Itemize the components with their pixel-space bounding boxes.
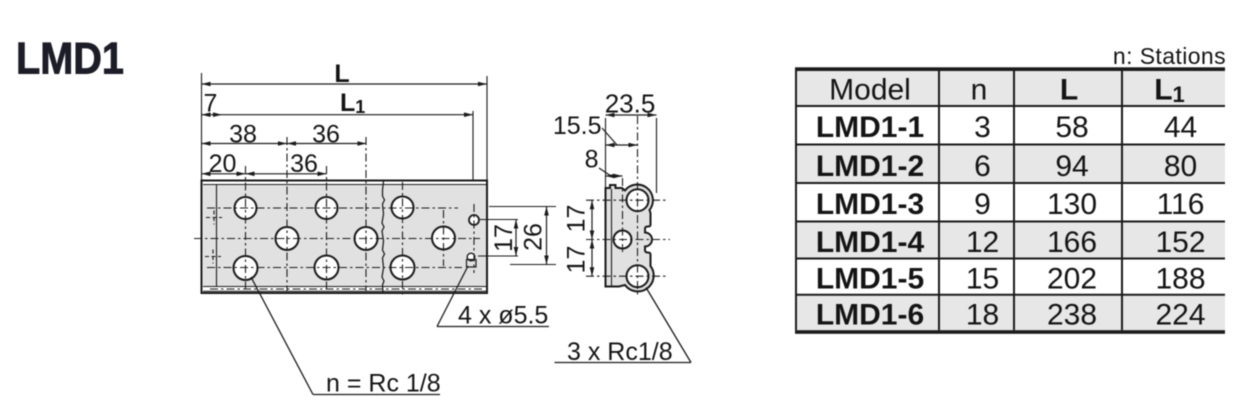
side view centerline bottom circle horizontal	[586, 275, 668, 277]
svg-text:n: n	[971, 74, 988, 107]
leader 15.5	[602, 128, 617, 145]
mounting hole top row 2	[316, 197, 338, 219]
svg-text:36: 36	[290, 150, 318, 178]
svg-text:44: 44	[1164, 111, 1197, 144]
svg-text:12: 12	[966, 226, 999, 259]
svg-text:8: 8	[585, 146, 599, 174]
centerline hole column 5	[402, 182, 404, 296]
svg-text:18: 18	[966, 299, 999, 332]
svg-text:202: 202	[1047, 263, 1097, 296]
svg-text:9: 9	[974, 188, 991, 221]
svg-text:188: 188	[1155, 263, 1205, 296]
table row LMD1-4 background	[795, 222, 1225, 259]
svg-text:80: 80	[1164, 150, 1197, 183]
label 4 x dia5.5 underline	[437, 326, 549, 328]
side view port circle middle (Rc1/8)	[614, 231, 632, 249]
side view centerline middle circle horizontal	[586, 239, 670, 241]
leader line 3 x Rc1/8	[646, 288, 691, 363]
svg-text:166: 166	[1047, 226, 1097, 259]
leader line 4 x dia5.5	[437, 266, 468, 327]
dimension 17 vertical line	[515, 220, 517, 257]
table column divider L-L1	[1121, 71, 1123, 330]
svg-text:LMD1-2: LMD1-2	[816, 150, 924, 183]
port hole middle row 2	[355, 227, 378, 250]
side view flange inner line	[611, 189, 613, 286]
side view centerline vertical middle circle	[622, 178, 624, 253]
label 3 x Rc1/8 underline	[555, 362, 692, 364]
centerline bottom band	[210, 288, 482, 290]
extension line 23.5 right	[656, 118, 658, 193]
extension line 26 bottom	[510, 264, 556, 266]
table column divider Model-n	[938, 71, 940, 330]
mounting hole top row 1	[235, 197, 257, 219]
svg-text:58: 58	[1055, 111, 1088, 144]
centerline hole column 1	[245, 166, 247, 291]
plate inner bottom edge line	[203, 286, 486, 288]
svg-text:224: 224	[1155, 299, 1205, 332]
centerline hole column 2 (middle row 1)	[286, 137, 288, 291]
svg-text:3 x Rc1/8: 3 x Rc1/8	[567, 338, 673, 366]
centerline hole column 3	[326, 166, 328, 291]
centerline small port column	[473, 204, 475, 273]
table row LMD1-2 background	[795, 145, 1225, 184]
svg-text:n: Stations: n: Stations	[1113, 43, 1226, 69]
left edge port cross upper	[206, 217, 222, 219]
leader line n = Rc 1/8	[251, 277, 313, 395]
svg-text:3: 3	[974, 111, 991, 144]
table column divider n-L	[1013, 71, 1015, 330]
extension line L1 right	[472, 111, 474, 180]
left edge port cross lower	[205, 256, 221, 258]
svg-text:130: 130	[1047, 188, 1097, 221]
svg-text:238: 238	[1047, 299, 1097, 332]
table header row background	[795, 71, 1225, 106]
extension line 23.5 left	[605, 118, 607, 188]
svg-text:36: 36	[312, 121, 340, 149]
centerline middle hole row	[194, 238, 480, 240]
svg-text:L: L	[334, 60, 349, 88]
mounting hole top row 3	[392, 197, 414, 219]
extension line plate left top	[201, 73, 203, 180]
small pilot hole lower right with square pad	[467, 253, 475, 261]
break line	[382, 181, 385, 292]
plate left inner edge line	[216, 185, 218, 287]
side view centerline top circle horizontal	[586, 199, 668, 201]
small pilot hole upper right	[469, 215, 479, 225]
svg-text:23.5: 23.5	[605, 89, 656, 119]
dimension 17-17 vertical line side view	[591, 200, 593, 276]
svg-text:15: 15	[966, 263, 999, 296]
svg-text:17: 17	[563, 205, 591, 233]
port hole middle row 3	[432, 227, 455, 250]
side view centerline vertical top-bottom circles	[637, 116, 639, 297]
dimension 20-36 line	[202, 173, 327, 175]
dimension 26 vertical line	[546, 207, 548, 265]
centerline hole column 4 (middle row 2)	[365, 137, 367, 291]
front view plate body	[202, 181, 488, 294]
svg-text:15.5: 15.5	[553, 112, 602, 140]
extension line 17 top	[480, 219, 518, 221]
dimension 7 and L1 line	[202, 114, 474, 116]
extension line 26 top	[489, 206, 556, 208]
svg-text:LMD1-6: LMD1-6	[816, 299, 924, 332]
svg-text:6: 6	[974, 150, 991, 183]
svg-text:LMD1-4: LMD1-4	[816, 226, 925, 259]
extension line plate right top	[486, 76, 488, 180]
svg-text:26: 26	[520, 223, 548, 251]
label n = Rc 1/8 underline	[313, 394, 440, 396]
dimension 38-36 line	[202, 143, 367, 145]
table row LMD1-6 background	[795, 295, 1225, 330]
svg-text:LMD1-5: LMD1-5	[816, 263, 924, 296]
svg-text:17: 17	[563, 246, 591, 274]
side view body	[606, 185, 654, 292]
plate second bottom line	[203, 290, 486, 292]
side view port circle top (Rc1/8)	[627, 189, 649, 211]
centerline bottom hole row	[207, 267, 462, 269]
svg-text:4 x ø5.5: 4 x ø5.5	[458, 302, 548, 330]
table left border	[795, 71, 797, 330]
port hole middle row 1	[276, 227, 299, 250]
table top border thick	[795, 67, 1225, 71]
table horizontal separators	[795, 105, 1225, 107]
svg-text:n = Rc 1/8: n = Rc 1/8	[326, 370, 441, 398]
svg-text:LMD1-1: LMD1-1	[816, 111, 924, 144]
svg-text:116: 116	[1157, 188, 1205, 221]
svg-text:LMD1: LMD1	[16, 35, 124, 84]
table bottom border thick	[795, 330, 1225, 334]
port hole bottom row 2	[315, 256, 339, 280]
port hole bottom row 3	[391, 256, 415, 280]
svg-text:94: 94	[1055, 150, 1088, 183]
svg-text:152: 152	[1155, 226, 1205, 259]
centerline hole column 6 (middle row 3)	[443, 210, 445, 266]
dimension L line	[202, 83, 488, 85]
dimension 23.5 line	[606, 114, 657, 116]
svg-text:17: 17	[490, 224, 518, 252]
svg-text:38: 38	[229, 121, 257, 149]
centerline top hole row	[207, 207, 458, 209]
side view port circle bottom (Rc1/8)	[627, 265, 649, 287]
port hole bottom row 1 (n = Rc 1/8)	[234, 256, 258, 280]
plate inner top edge line	[203, 184, 486, 186]
svg-text:LMD1-3: LMD1-3	[816, 188, 924, 221]
svg-text:7: 7	[204, 90, 218, 118]
svg-text:L: L	[1060, 74, 1078, 107]
leader 8	[599, 168, 611, 176]
svg-text:20: 20	[209, 150, 237, 178]
extension line 17 bottom	[478, 255, 518, 257]
dimension 15.5 line	[606, 144, 638, 146]
dimension 8 line	[606, 175, 623, 177]
svg-text:Model: Model	[829, 74, 911, 107]
